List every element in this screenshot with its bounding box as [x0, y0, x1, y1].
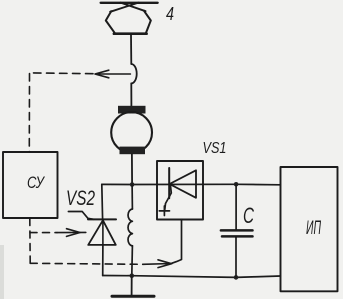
- wire VS1 cathode down: [172, 220, 182, 264]
- propeller crossed lines: [110, 3, 138, 12]
- inductor L coil bumps: [128, 209, 132, 246]
- bottom terminal bar: [112, 295, 154, 298]
- svg-text:С: С: [243, 203, 254, 228]
- arrow shaft to VS2: [57, 231, 86, 233]
- wire motor to node: [131, 154, 133, 185]
- VS1 box: [157, 161, 203, 220]
- thyristor VS1 triangle: [170, 170, 197, 198]
- svg-text:VS2: VS2: [66, 187, 95, 210]
- svg-text:СУ: СУ: [27, 173, 46, 192]
- wire bus to bottom terminal: [131, 276, 133, 296]
- wire VS2 anode down: [102, 245, 104, 276]
- node wire horizontal: [102, 183, 280, 186]
- junction node at capacitor top: [234, 182, 239, 187]
- wire bump to motor: [130, 83, 132, 106]
- dashed control line CU to VS1: [30, 260, 172, 268]
- inductor L wire to bus: [131, 246, 134, 276]
- thyristor VS1 gate lead: [165, 185, 172, 210]
- thyristor VS1 cathode bar: [168, 168, 170, 198]
- capacitor C top plate: [221, 229, 253, 232]
- arrowhead right VS2: [67, 229, 81, 237]
- wire propeller to sensor bump: [130, 35, 132, 64]
- thyristor VS1 gate plus mark: [159, 206, 169, 216]
- dashed branch to VS2: [30, 232, 57, 234]
- inductor L wire from node: [131, 185, 133, 210]
- svg-text:VS1: VS1: [203, 140, 227, 157]
- arrowhead left: [95, 70, 109, 78]
- propeller symbol top bar: [101, 2, 158, 4]
- capacitor C top wire: [235, 184, 237, 229]
- propeller pentagon body: [106, 11, 151, 33]
- svg-text:ИП: ИП: [306, 218, 321, 239]
- motor M top brush: [118, 106, 146, 114]
- dashed segment to corner: [30, 72, 93, 75]
- scan shadow bottom-left: [0, 245, 4, 299]
- svg-text:4: 4: [166, 4, 174, 24]
- CU control box: [3, 152, 58, 218]
- bottom bus wire: [103, 276, 281, 278]
- capacitor C bottom wire: [235, 238, 237, 278]
- motor M bottom brush: [120, 147, 146, 155]
- junction node coil-bus: [130, 273, 135, 278]
- motor M armature circle: [111, 112, 152, 153]
- capacitor C bottom plate: [222, 235, 253, 238]
- dashed control line CU to VS2: [30, 219, 86, 264]
- dashed vertical from CU bottom: [29, 219, 31, 264]
- power supply IP box: [281, 167, 338, 291]
- arrow shaft to VS1: [143, 263, 172, 266]
- wire node to VS2: [101, 184, 104, 219]
- arrow shaft solid: [96, 73, 130, 75]
- propeller bottom edge: [114, 32, 147, 35]
- dashed vertical into CU top: [28, 74, 30, 152]
- thyristor VS2 triangle: [88, 220, 116, 245]
- arrowhead right VS1: [158, 260, 172, 268]
- dashed horizontal to VS1: [30, 263, 143, 264]
- thyristor VS2 cathode bar: [88, 218, 116, 220]
- junction node capacitor-bus: [234, 275, 239, 280]
- thyristor VS2 gate lead: [68, 212, 93, 220]
- shaft sensor bump: [131, 64, 136, 83]
- junction node at motor: [130, 182, 135, 187]
- thyristor VS2 axis through triangle: [102, 220, 104, 245]
- dashed speed feedback line to CU: [29, 70, 130, 151]
